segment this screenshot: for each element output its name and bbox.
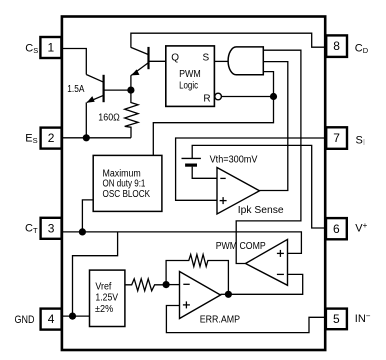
transistor Q2 driver <box>131 47 166 90</box>
svg-text:±2%: ±2% <box>95 304 113 315</box>
svg-text:Q: Q <box>171 52 179 63</box>
svg-text:PWM: PWM <box>179 69 201 80</box>
svg-text:PWM COMP: PWM COMP <box>216 241 266 252</box>
svg-text:ERR.AMP: ERR.AMP <box>200 315 241 326</box>
svg-text:4: 4 <box>48 312 55 326</box>
wire Ct pin3 rail to PWM COMP + input <box>63 232 302 254</box>
AND gate (mirrored, inputs right) <box>228 47 263 75</box>
svg-text:Vref: Vref <box>95 281 111 292</box>
wire GND pin4 to Vref <box>63 315 90 317</box>
wire ERR.AMP + input to pin5 IN- <box>166 306 326 333</box>
svg-text:1.5A: 1.5A <box>67 84 84 95</box>
wire pin7 Si to Ipk Sense + input <box>176 138 326 200</box>
feedback resistor over ERR.AMP <box>166 255 228 295</box>
pin 4 box <box>41 309 62 330</box>
pin 5 box <box>326 309 347 330</box>
wire AND middle input to Ipk Sense output <box>260 62 288 191</box>
node Q2 emitter / Q1 base / 160ohm top <box>127 87 134 94</box>
svg-text:GND: GND <box>15 314 35 326</box>
svg-text:OSC BLOCK: OSC BLOCK <box>103 189 151 200</box>
inverter bubble on R input <box>215 93 222 100</box>
svg-text:Ipk Sense: Ipk Sense <box>238 205 284 216</box>
svg-text:3: 3 <box>48 221 55 235</box>
wire AND bottom input / R / oscillator <box>153 72 273 156</box>
op-amp Ipk Sense comparator <box>217 168 260 215</box>
node error amp - input <box>163 281 170 288</box>
wire pin6 V+ to battery top <box>192 145 326 228</box>
wire Ct rail tap to GND rail <box>73 232 118 316</box>
op-amp ERR.AMP <box>180 272 221 319</box>
pin 1 box <box>40 37 61 58</box>
svg-text:8: 8 <box>333 39 340 53</box>
svg-text:5: 5 <box>333 312 340 326</box>
svg-text:Vth=300mV: Vth=300mV <box>210 154 258 165</box>
svg-text:160Ω: 160Ω <box>98 112 120 123</box>
wire AND top input to PWM COMP output <box>236 50 301 263</box>
node R / oscillator net <box>270 93 277 100</box>
node Q1 emitter on Es rail <box>83 134 90 141</box>
pin 7 box <box>326 127 347 149</box>
wire pin1 to Q1 collector <box>63 49 87 75</box>
node OSC tap on Ct rail <box>79 228 86 235</box>
svg-text:S: S <box>203 52 210 63</box>
PWM Logic block <box>166 46 215 107</box>
wire - input <box>166 284 179 286</box>
svg-text:ON duty 9:1: ON duty 9:1 <box>103 178 146 189</box>
op-amp PWM COMP comparator (points left) <box>246 239 288 285</box>
wire S output to AND gate <box>214 60 229 62</box>
node ERR.AMP output <box>225 291 232 298</box>
wire PWM COMP - input to ERR.AMP output node <box>228 274 302 294</box>
pin 6 box <box>326 218 347 239</box>
transistor Q1 output 1.5A <box>86 75 131 138</box>
wire ERR.AMP output to node <box>221 293 229 295</box>
svg-text:Logic: Logic <box>179 80 198 91</box>
svg-text:6: 6 <box>333 222 340 236</box>
OSC BLOCK box <box>93 155 162 211</box>
wire OSC left tap to Ct rail <box>82 200 93 232</box>
svg-text:1: 1 <box>48 41 55 55</box>
battery Vth=300mV <box>182 158 218 178</box>
pin 8 box <box>326 35 347 57</box>
svg-text:R: R <box>203 94 210 105</box>
svg-text:7: 7 <box>333 131 340 145</box>
pin 2 box <box>41 128 62 149</box>
IC outline U1 <box>62 17 325 351</box>
node GND tap <box>69 313 76 320</box>
svg-text:2: 2 <box>48 131 55 145</box>
Vref block 1.25V +/-2% <box>90 270 125 326</box>
top rail from Q2 collector to pin 8 <box>131 33 326 47</box>
pin 3 box <box>41 218 62 239</box>
wire Es pin2 rail <box>63 137 132 139</box>
wire R input <box>221 96 273 98</box>
resistor 160ohm <box>125 90 138 138</box>
svg-text:1.25V: 1.25V <box>95 293 118 304</box>
resistor Vref to error amp input <box>125 279 166 291</box>
